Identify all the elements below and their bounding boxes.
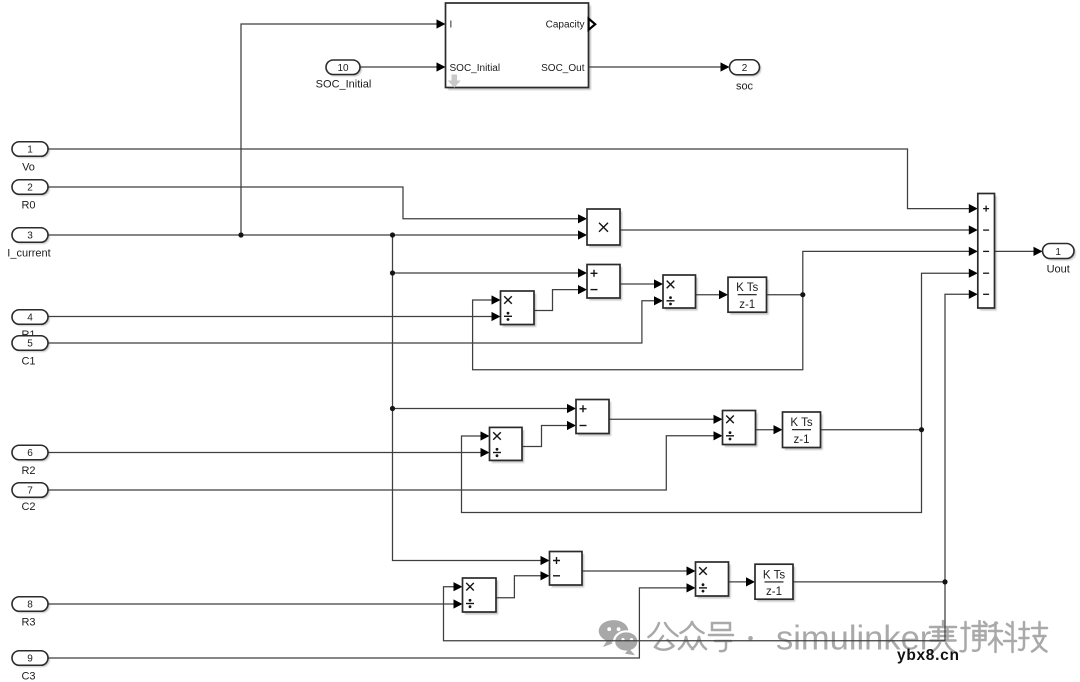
svg-text:K Ts: K Ts xyxy=(736,282,758,294)
svg-text:Vo: Vo xyxy=(22,162,35,174)
svg-text:9: 9 xyxy=(27,654,33,665)
svg-text:3: 3 xyxy=(27,231,33,242)
svg-text:R3: R3 xyxy=(21,617,35,629)
svg-text:2: 2 xyxy=(27,183,33,194)
svg-text:R0: R0 xyxy=(21,200,35,212)
svg-text:2: 2 xyxy=(742,63,748,74)
svg-text:I_current: I_current xyxy=(7,248,50,260)
svg-text:C3: C3 xyxy=(21,671,35,682)
svg-text:Capacity: Capacity xyxy=(546,20,585,31)
svg-text:8: 8 xyxy=(27,600,33,611)
svg-text:6: 6 xyxy=(27,448,33,459)
svg-text:z-1: z-1 xyxy=(794,434,810,446)
svg-text:SOC_Out: SOC_Out xyxy=(541,63,585,74)
svg-text:C1: C1 xyxy=(21,356,35,368)
svg-text:z-1: z-1 xyxy=(766,586,782,598)
svg-text:4: 4 xyxy=(27,313,33,324)
svg-text:K Ts: K Ts xyxy=(790,417,812,429)
svg-text:C2: C2 xyxy=(21,501,35,513)
svg-text:1: 1 xyxy=(1055,247,1061,258)
svg-text:K Ts: K Ts xyxy=(763,569,785,581)
svg-text:ybx8.cn: ybx8.cn xyxy=(897,647,960,664)
svg-text:soc: soc xyxy=(736,81,754,93)
svg-text:z-1: z-1 xyxy=(739,299,755,311)
svg-text:5: 5 xyxy=(27,339,33,350)
svg-text:10: 10 xyxy=(337,63,349,74)
svg-text:SOC_Initial: SOC_Initial xyxy=(316,79,372,91)
svg-text:I: I xyxy=(450,20,453,31)
svg-text:1: 1 xyxy=(27,145,33,156)
svg-text:7: 7 xyxy=(27,486,33,497)
svg-text:R2: R2 xyxy=(21,465,35,477)
svg-text:Uout: Uout xyxy=(1047,264,1070,276)
svg-text:SOC_Initial: SOC_Initial xyxy=(450,63,501,74)
